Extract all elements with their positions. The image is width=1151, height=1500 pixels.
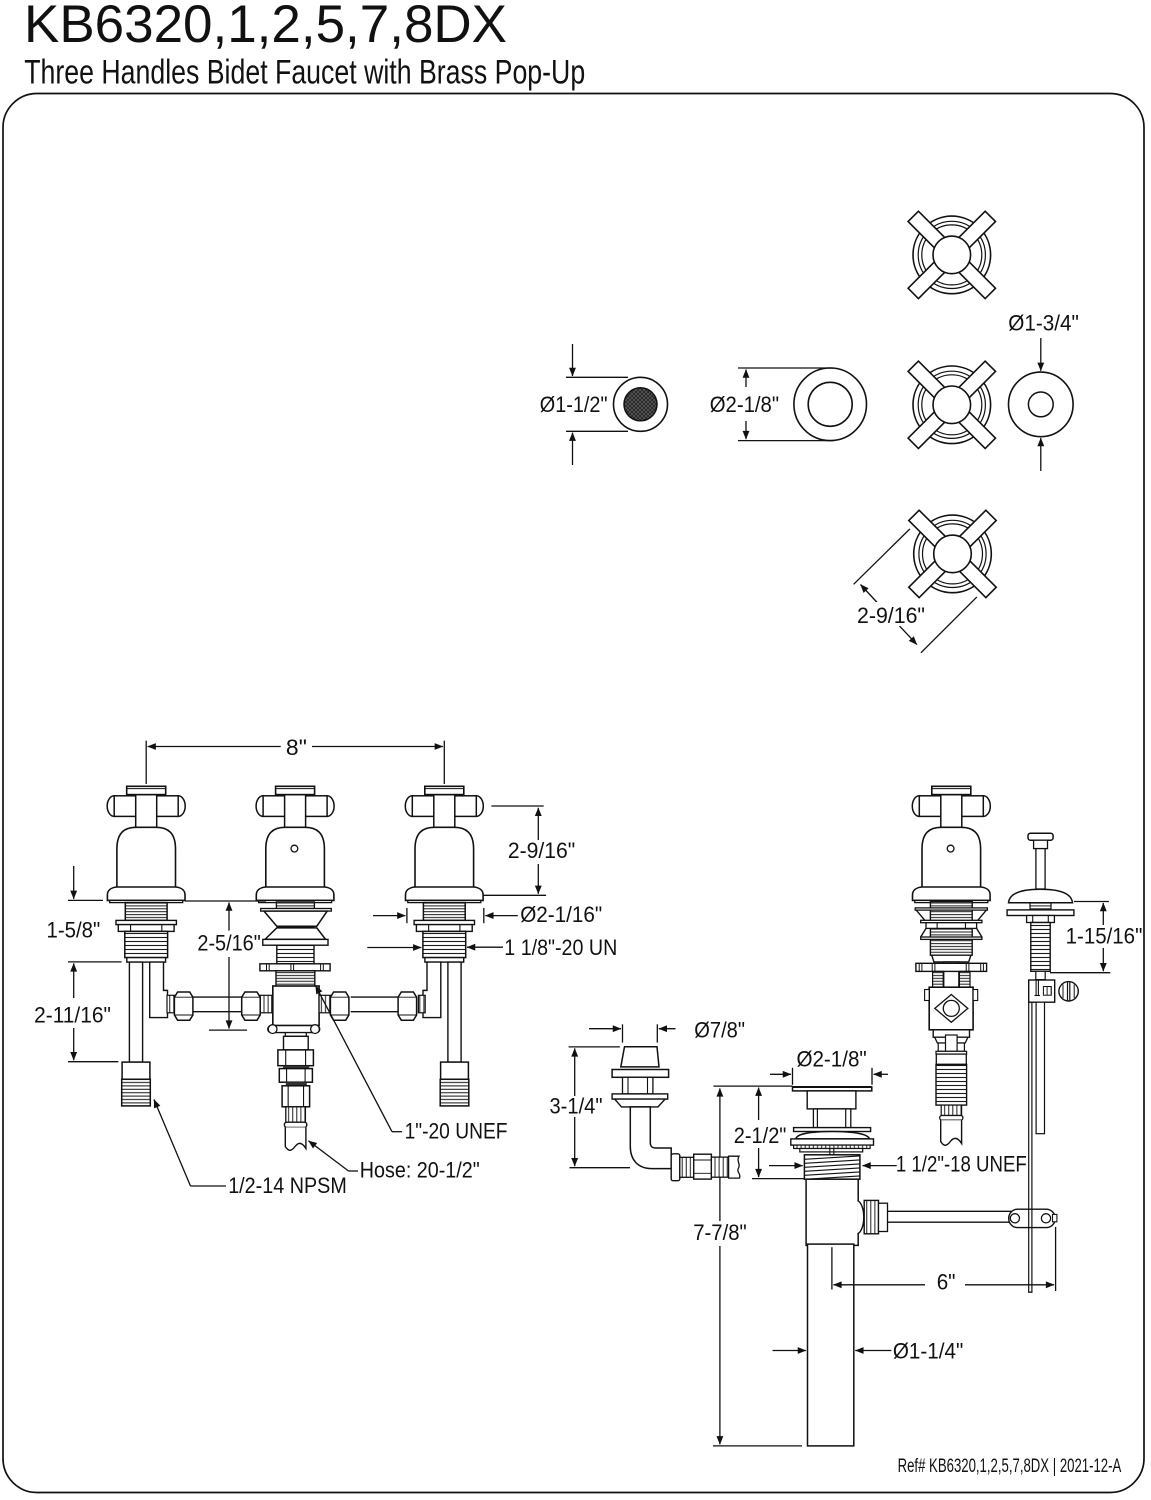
supply tailpiece tube	[448, 962, 461, 1062]
lift rod flange threads	[1030, 903, 1051, 910]
lift rod knob	[1028, 833, 1053, 840]
hose hex nut 2	[279, 1069, 312, 1083]
dimension 2-1/2"	[713, 1085, 792, 1087]
svg-text:1 1/2"-18 UNEF: 1 1/2"-18 UNEF	[896, 1152, 1027, 1177]
spray flange	[612, 1070, 669, 1078]
svg-text:Ø7/8": Ø7/8"	[694, 1018, 745, 1043]
compression threads	[167, 995, 174, 1013]
svg-text:1-5/8": 1-5/8"	[47, 918, 101, 943]
side valve toothed washer	[916, 963, 987, 971]
side valve split threads	[933, 971, 944, 987]
pivot rod	[888, 1210, 1013, 1212]
svg-text:Hose: 20-1/2": Hose: 20-1/2"	[360, 1158, 480, 1183]
clevis screw threads	[1043, 987, 1051, 996]
handle top cap	[932, 786, 971, 794]
dimension 1-5/8"	[68, 899, 103, 901]
escutcheon circles	[794, 368, 867, 441]
hose spline	[286, 1107, 306, 1122]
compression nut	[174, 992, 193, 1020]
svg-text:3-1/4": 3-1/4"	[550, 1094, 603, 1119]
drain dome washer	[796, 1132, 870, 1139]
aerator outlet circle	[614, 377, 668, 431]
handle hub	[136, 795, 157, 828]
label 1"-20 UNEF with leader	[392, 1131, 402, 1133]
handle hub	[285, 795, 306, 828]
drain bevel	[794, 1145, 871, 1148]
svg-text:Ø1-1/4": Ø1-1/4"	[893, 1339, 963, 1364]
side valve body block	[929, 987, 973, 1030]
pivot ball	[858, 1201, 864, 1234]
side valve nut	[926, 923, 977, 929]
side valve hose coupling cap	[936, 1051, 967, 1054]
hose tube with break	[285, 1127, 306, 1150]
compression nut	[242, 992, 261, 1020]
drain body	[806, 1179, 858, 1245]
pivot link	[1009, 1209, 1055, 1227]
dimension 6"	[831, 1247, 833, 1289]
bell skirt	[406, 887, 484, 900]
compression nut	[398, 992, 417, 1020]
side valve hose spline	[941, 1105, 961, 1115]
valve outlet elbow tube	[150, 962, 168, 1018]
svg-text:7-7/8": 7-7/8"	[693, 1220, 747, 1245]
cross handle top view (middle)	[908, 361, 995, 448]
dimension 8" extension lines	[145, 741, 147, 784]
compression nut	[330, 992, 349, 1020]
lift rod nut	[1027, 916, 1055, 923]
shank collar	[425, 958, 464, 963]
center lower threads	[276, 971, 315, 986]
dimension Ø2-1/8"	[738, 367, 833, 369]
hose hex nut 1	[278, 1050, 314, 1066]
dimension 3-1/4"	[569, 1046, 620, 1048]
tee outlet washer with bulb ends	[268, 1026, 320, 1033]
side valve neck blocks with stem	[938, 1043, 946, 1051]
dimension 2-9/16" diagonal	[854, 529, 910, 584]
lift strap through link	[1028, 1209, 1030, 1227]
trim ring circle	[1009, 372, 1074, 437]
clevis bracket	[1029, 980, 1055, 1002]
bell skirt	[256, 887, 334, 900]
label 1/2-14 NPSM with leader	[191, 1185, 227, 1187]
drain flange	[793, 1087, 872, 1091]
side valve ring	[915, 908, 987, 910]
svg-text:Ref# KB6320,1,2,5,7,8DX | 2021: Ref# KB6320,1,2,5,7,8DX | 2021-12-A	[898, 1455, 1122, 1477]
clevis flat bar	[1036, 1002, 1044, 1133]
svg-text:KB6320,1,2,5,7,8DX: KB6320,1,2,5,7,8DX	[24, 0, 507, 54]
center flare skirt	[263, 939, 328, 945]
pivot collar	[879, 1203, 888, 1231]
compression threads	[319, 995, 330, 1013]
drain band	[791, 1139, 874, 1145]
center flare	[265, 928, 326, 940]
supply inlet fitting	[441, 1062, 469, 1079]
svg-text:Ø1-3/4": Ø1-3/4"	[1008, 311, 1079, 336]
dimension Ø1-1/4"	[773, 1350, 807, 1352]
svg-text:1 1/8"-20 UN: 1 1/8"-20 UN	[504, 935, 617, 960]
clevis thumbscrew	[1059, 982, 1078, 1001]
svg-text:2-9/16": 2-9/16"	[857, 603, 925, 628]
side valve shank threads	[930, 902, 972, 956]
dimension Ø1-1/2"	[566, 376, 628, 378]
tee outlet neck	[285, 1033, 306, 1037]
label 1 1/2"-18 UNEF	[769, 1165, 803, 1167]
lift strap	[1028, 1002, 1030, 1292]
supply tailpiece tube	[129, 962, 142, 1062]
lift rod threaded section	[1031, 923, 1050, 972]
spray skirt	[615, 1099, 665, 1107]
lift rod washer plate	[1007, 910, 1074, 916]
mounting nut	[118, 925, 174, 932]
mounting washer	[414, 920, 474, 924]
bonnet bell	[922, 827, 981, 887]
drain washer	[794, 1128, 871, 1132]
side valve taper	[935, 1037, 968, 1043]
spray neck	[623, 1077, 653, 1094]
dimension 1-15/16"	[1074, 901, 1109, 903]
bonnet bell	[117, 827, 176, 887]
handle cross bar	[256, 796, 270, 817]
manifold right pipe	[351, 996, 398, 998]
center toothed washer	[260, 964, 330, 971]
dimension 1 1/8"-20 UN	[367, 947, 421, 949]
svg-text:Ø1-1/2": Ø1-1/2"	[540, 392, 608, 417]
drain step	[800, 1149, 863, 1152]
side valve small block	[933, 1030, 969, 1037]
drain stopper body	[807, 1091, 856, 1109]
center shank threads	[277, 945, 314, 964]
tee body	[273, 986, 319, 1026]
center washer band	[261, 909, 332, 912]
side valve coupling ribs	[936, 1064, 967, 1105]
svg-text:Ø2-1/16": Ø2-1/16"	[520, 902, 602, 927]
side valve coupling band	[936, 1054, 966, 1064]
hose hex nut 3	[282, 1086, 310, 1107]
side valve washer	[921, 920, 982, 922]
side valve hose with break	[941, 1120, 962, 1145]
side valve flare lines	[921, 928, 926, 937]
cross handle top view (lower, rotated)	[909, 510, 996, 597]
spray fitting threads	[680, 1157, 694, 1177]
bell skirt	[913, 887, 991, 900]
center cone	[264, 911, 327, 926]
svg-text:1-15/16": 1-15/16"	[1066, 924, 1143, 949]
side valve collar	[932, 955, 971, 962]
lift rod dome flange	[1009, 889, 1073, 903]
dimension 2-9/16" right side	[491, 805, 543, 807]
handle cross bar	[107, 796, 121, 817]
compression threads	[418, 995, 425, 1013]
center shank threads short	[276, 902, 314, 909]
svg-text:1/2-14 NPSM: 1/2-14 NPSM	[228, 1173, 347, 1198]
handle cross bar	[912, 796, 926, 817]
svg-text:2-11/16": 2-11/16"	[34, 1003, 111, 1028]
dimension 8"	[148, 746, 281, 748]
valve shank threads lower	[423, 931, 466, 957]
mounting washer	[116, 920, 176, 924]
dimension Ø7/8"	[622, 1024, 624, 1042]
lift rod upper	[1036, 849, 1045, 889]
drain body threads	[804, 1155, 860, 1179]
dimension 2-5/16"	[185, 900, 266, 902]
valve outlet elbow tube	[423, 962, 441, 1018]
svg-text:Three Handles Bidet Faucet wit: Three Handles Bidet Faucet with Brass Po…	[24, 54, 585, 92]
valve shank threads upper	[125, 903, 167, 921]
spray elbow tube	[630, 1107, 671, 1169]
spray washer	[612, 1094, 668, 1099]
spray fitting hex nut	[694, 1154, 712, 1179]
svg-text:6": 6"	[937, 1270, 956, 1295]
handle top cap	[276, 786, 315, 794]
supply inlet fitting	[122, 1062, 150, 1079]
dimension 7-7/8"	[719, 1088, 721, 1120]
valve shank threads lower	[125, 931, 168, 957]
svg-text:2-9/16": 2-9/16"	[508, 838, 575, 863]
manifold left pipe	[192, 996, 242, 998]
side valve hose collar	[940, 1116, 963, 1121]
tee outlet block	[284, 1036, 309, 1050]
svg-text:Ø2-1/8": Ø2-1/8"	[796, 1047, 866, 1072]
spray hose spline	[711, 1157, 728, 1177]
pivot nut	[864, 1200, 878, 1233]
bonnet bell	[266, 827, 325, 887]
drain neck	[813, 1109, 850, 1128]
bonnet bell	[415, 827, 474, 887]
side valve cone lines	[916, 910, 927, 923]
svg-text:8": 8"	[286, 735, 307, 760]
lift rod lower	[1036, 971, 1045, 979]
spray nozzle	[621, 1047, 659, 1067]
dimension Ø2-1/16"	[406, 908, 408, 923]
svg-text:1"-20 UNEF: 1"-20 UNEF	[405, 1119, 508, 1144]
shank collar	[127, 958, 166, 963]
handle top cap	[425, 786, 464, 794]
dimension Ø2-1/8" drain	[792, 1068, 794, 1085]
label Hose: 20-1/2" with leader	[349, 1170, 359, 1172]
spray hose stub with break	[729, 1156, 740, 1178]
valve shank threads upper	[423, 903, 465, 921]
svg-text:2-5/16": 2-5/16"	[197, 931, 260, 956]
hose collar	[284, 1122, 306, 1127]
svg-text:Ø2-1/8": Ø2-1/8"	[710, 392, 779, 417]
handle top cap	[127, 786, 166, 794]
bell skirt	[107, 887, 185, 900]
svg-text:2-1/2": 2-1/2"	[734, 1123, 787, 1148]
spray fitting ring	[671, 1154, 680, 1181]
drain tailpiece	[808, 1244, 854, 1446]
handle hub	[941, 795, 962, 828]
side valve stem	[944, 962, 959, 987]
mounting nut	[416, 925, 472, 932]
handle cross bar	[405, 796, 419, 817]
cross handle top view (upper)	[908, 211, 995, 298]
compression threads	[260, 995, 272, 1013]
handle hub	[434, 795, 455, 828]
